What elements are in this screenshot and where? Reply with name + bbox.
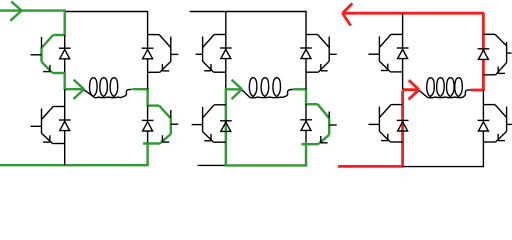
wire: C3 left leg upper-to-midpoint (black)	[402, 72, 404, 90]
wire: C1 right leg top (black)	[147, 12, 149, 35]
diode D2 (C3 lower-left, conducting: red wire through)	[397, 120, 409, 131]
current arrow into inductor L1	[65, 80, 84, 99]
circuit 3 bottom rail right section (black)	[403, 166, 484, 168]
transistor Q4 (C3 lower-right IGBT, off)	[483, 105, 512, 142]
wire: C3 right leg midpoint to lower device (black)	[482, 90, 484, 105]
transistor Q1 (C1 upper-left IGBT, conducting green)	[31, 35, 65, 73]
inductor L3 (C3)	[419, 78, 471, 98]
diode D4 (C2 lower-right)	[300, 120, 312, 131]
wire: C3 right leg through lower diode (black)	[482, 105, 484, 142]
circuit 3 top rail, current return to source (red)	[342, 12, 484, 15]
circuit 3 output current arrow (red, pointing left)	[342, 3, 352, 25]
diode D1 (C2 upper-left)	[220, 48, 232, 59]
diode D1 (C3 upper-left)	[397, 48, 409, 59]
inductor L1 (C1)	[84, 78, 132, 98]
transistor Q1 (C2 upper-left IGBT, off)	[196, 35, 226, 73]
circuit 1 supply input wire (green)	[0, 9, 66, 11]
transistor Q2 (C1 lower-left IGBT, off)	[31, 107, 65, 144]
circuit 1 bottom rail / return wire (green)	[0, 164, 149, 166]
wire: L2 to right leg midpoint (green)	[293, 88, 307, 90]
wire: C1 left leg top (green)	[63, 10, 65, 36]
wire: C2 left leg freewheel up through D2 (green)	[225, 88, 227, 166]
wire: C1 left leg midpoint to lower device (black)	[64, 89, 66, 106]
wire: C2 right leg top (black)	[305, 12, 307, 35]
wire: C2 right leg upper-to-midpoint (black)	[305, 72, 307, 89]
wire: C3 left leg up through D2 (red)	[401, 91, 404, 167]
wire: C2 left leg top (black)	[225, 12, 227, 35]
wire: C1 left leg to bottom rail (black)	[64, 144, 66, 166]
wire: C2 left leg through upper diode (black)	[225, 35, 227, 73]
diode D2 (C2 lower-left, conducting: green wire through)	[220, 121, 232, 132]
wire: C2 right leg to bottom rail (green)	[305, 141, 307, 166]
diode D3 (C2 upper-right)	[300, 48, 312, 59]
inductor L2 (C2)	[242, 78, 293, 98]
diode D3 (C3 upper-right, conducting: red wire through)	[478, 49, 490, 60]
diode D4 (C3 lower-right)	[478, 120, 490, 131]
diode D4 (C1 lower-right)	[142, 120, 154, 131]
circuit 2 top rail (black)	[190, 11, 307, 13]
wire: C2 right leg through lower diode (black)	[305, 104, 307, 144]
diode D1 (C1 upper-left)	[59, 48, 71, 59]
wire: C1 right leg to midpoint (black)	[147, 72, 149, 89]
wire: C2 right leg below midpoint (green)	[305, 88, 307, 105]
current arrow into inductor L2	[226, 80, 242, 99]
transistor Q2 (C3 lower-left IGBT, off)	[368, 105, 402, 142]
transistor Q3 (C1 upper-right IGBT, off)	[148, 35, 179, 73]
diode D2 (C1 lower-left)	[59, 120, 71, 131]
transistor Q3 (C2 upper-right IGBT, off)	[306, 35, 337, 73]
wire: C1 left leg to midpoint (green)	[63, 72, 65, 90]
wire: L1 to right leg midpoint (green)	[132, 88, 148, 90]
diode D3 (C1 upper-right)	[142, 48, 154, 59]
circuit 2 bottom rail freewheel return (green)	[225, 164, 307, 166]
circuit 3 bottom rail, current input from load (red)	[338, 165, 404, 168]
transistor Q1 (C3 upper-left IGBT, off)	[368, 34, 402, 72]
wire: C3 right leg to bottom rail (black)	[482, 142, 484, 167]
circuit 1 top rail (black)	[65, 11, 149, 13]
transistor Q2 (C2 lower-left IGBT, off)	[192, 105, 226, 142]
current arrow into inductor L3 (red)	[403, 80, 419, 99]
wire: C1 right leg below midpoint (green)	[146, 88, 148, 106]
wire: C1 right leg through upper diode (black)	[147, 35, 149, 73]
wire: C3 midpoint to right leg (red)	[471, 89, 484, 92]
transistor Q3 (C3 upper-right IGBT, off)	[483, 34, 511, 75]
wire: C2 left leg upper-to-midpoint (black)	[225, 72, 227, 88]
wire: C1 right leg through lower diode (black)	[147, 106, 149, 144]
transistor Q4 (C1 lower-right IGBT, conducting green)	[143, 106, 178, 144]
transistor Q4 (C2 lower-right IGBT, conducting green)	[302, 104, 337, 144]
wire: C3 right leg top through D3 (red)	[482, 13, 485, 91]
wire: C3 left leg top (black)	[402, 13, 404, 34]
wire: C1 left leg through upper diode (black)	[64, 35, 66, 73]
circuit 2 bottom rail stub (black)	[198, 164, 225, 166]
wire: C2 right leg through upper diode (black)	[305, 35, 307, 73]
circuit 1 input current arrow	[10, 1, 21, 21]
wire: C1 right leg to bottom rail (green)	[146, 142, 148, 166]
wire: C1 left leg through lower diode (black)	[64, 107, 66, 144]
wire: C3 left leg through upper diode (black)	[402, 34, 404, 72]
